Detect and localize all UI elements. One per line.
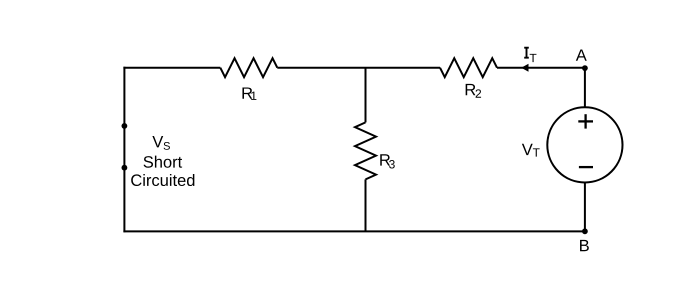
- wire: middle branch bottom vertical segment: [365, 179, 367, 231]
- label R1: [242, 87, 256, 99]
- wire: middle branch top vertical segment: [365, 68, 367, 123]
- label A: [576, 49, 587, 60]
- wire: node A down to source top: [584, 68, 586, 107]
- label B: [580, 240, 589, 251]
- label IT: [524, 48, 536, 62]
- resistor R3: [355, 122, 376, 179]
- wire: top-middle horizontal segment: [277, 67, 440, 69]
- node dot upper terminal of shorted source VS: [122, 123, 128, 129]
- node B: [582, 228, 588, 234]
- current arrow IT (points left): [521, 64, 528, 72]
- wire: source bottom down to node B: [584, 182, 586, 231]
- node dot lower terminal of shorted source VS: [122, 165, 128, 171]
- plus sign inside source: [578, 114, 593, 128]
- wire: top-right horizontal segment: [497, 67, 585, 69]
- resistor R1: [220, 58, 277, 77]
- voltage source VT (circle): [547, 107, 622, 182]
- wire: left vertical segment: [123, 67, 125, 233]
- wire: bottom horizontal segment: [123, 230, 585, 232]
- minus sign inside source: [579, 166, 593, 168]
- label R3: [380, 154, 395, 168]
- label VT: [522, 144, 540, 157]
- node A: [582, 65, 588, 71]
- label R2: [466, 84, 481, 98]
- label VS Short Circuited: [131, 136, 194, 186]
- wire: top-left horizontal segment: [123, 67, 220, 69]
- resistor R2: [440, 58, 497, 77]
